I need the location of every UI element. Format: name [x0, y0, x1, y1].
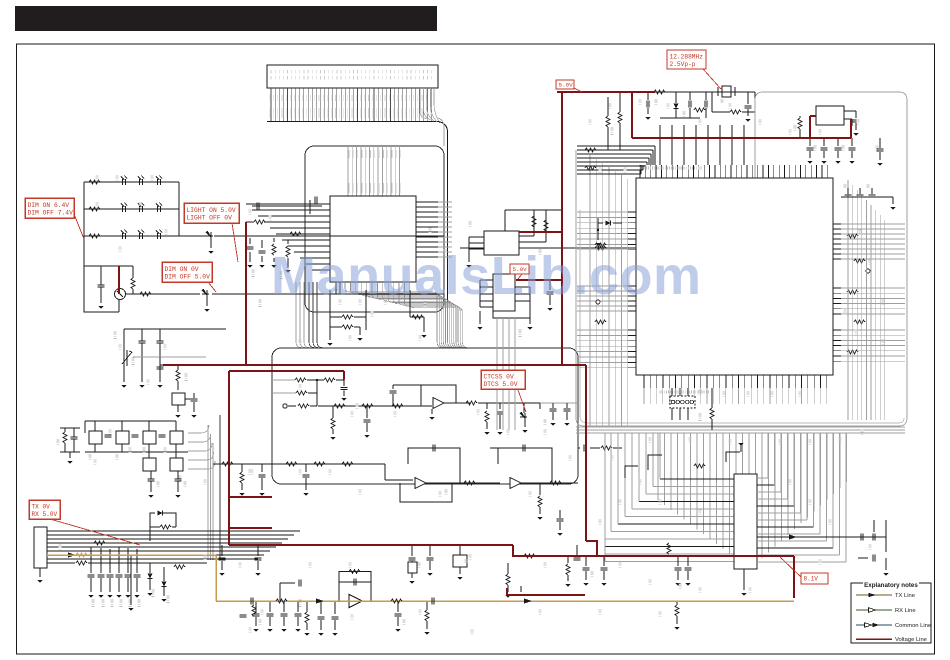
svg-text:Explanatory notes: Explanatory notes [864, 582, 918, 589]
svg-text:CTCSS 0V: CTCSS 0V [484, 373, 514, 380]
svg-text:LIGHT ON 5.0V: LIGHT ON 5.0V [187, 207, 236, 214]
svg-text:12.288MHz: 12.288MHz [670, 53, 704, 60]
svg-text:8.1V: 8.1V [804, 575, 819, 582]
svg-text:RX 5.0V: RX 5.0V [32, 511, 58, 518]
svg-text:DTCS 5.0V: DTCS 5.0V [484, 381, 518, 388]
svg-text:ManualsLib.com: ManualsLib.com [271, 246, 701, 306]
svg-text:DIM ON 6.4V: DIM ON 6.4V [28, 202, 70, 209]
svg-text:TX Line: TX Line [895, 593, 915, 599]
svg-text:Common Line: Common Line [895, 623, 931, 629]
svg-text:DIM OFF 7.4V: DIM OFF 7.4V [28, 210, 74, 217]
svg-text:LIGHT OFF 0V: LIGHT OFF 0V [187, 215, 233, 222]
svg-text:DIM OFF 5.0V: DIM OFF 5.0V [165, 274, 211, 281]
svg-text:TX 0V: TX 0V [32, 503, 51, 510]
svg-text:5.0V: 5.0V [559, 81, 574, 88]
svg-text:5.0V: 5.0V [513, 266, 528, 273]
svg-text:2.5Vp-p: 2.5Vp-p [670, 61, 696, 68]
svg-text:RX Line: RX Line [895, 608, 916, 614]
svg-text:Voltage Line: Voltage Line [895, 637, 927, 643]
svg-text:DIM ON 0V: DIM ON 0V [165, 266, 199, 273]
